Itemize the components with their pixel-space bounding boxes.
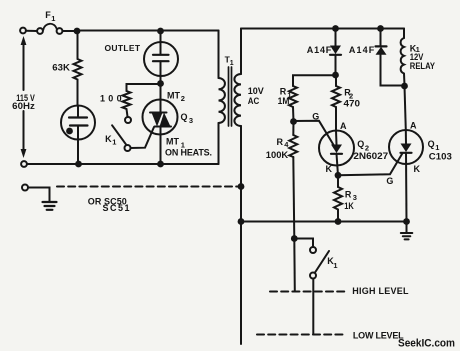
neon lamp bbox=[61, 106, 95, 140]
SCR Q1 bbox=[389, 86, 423, 222]
node junction triac bottom bbox=[157, 161, 164, 168]
svg-text:100K: 100K bbox=[266, 150, 289, 160]
svg-text:1: 1 bbox=[51, 14, 55, 23]
node junction bbox=[75, 161, 82, 168]
label K1 right bbox=[327, 256, 337, 270]
svg-text:G: G bbox=[386, 176, 393, 186]
svg-text:MT: MT bbox=[167, 90, 181, 100]
label MT1 bbox=[166, 137, 185, 150]
svg-text:K: K bbox=[326, 164, 333, 174]
svg-text:LOW LEVEL: LOW LEVEL bbox=[353, 330, 404, 340]
wire bottom rail right circuit bbox=[241, 221, 407, 223]
wire bbox=[26, 30, 37, 32]
svg-text:R: R bbox=[280, 87, 287, 97]
label OR SC50 SC51 bbox=[88, 196, 130, 213]
ground right bbox=[401, 222, 413, 240]
switch K1 left bbox=[112, 125, 130, 151]
resistor R1 bbox=[289, 86, 297, 122]
node junction left rail bottom wire bbox=[238, 218, 245, 225]
svg-text:2N6027: 2N6027 bbox=[353, 151, 388, 161]
svg-text:1: 1 bbox=[112, 138, 116, 147]
svg-text:RELAY: RELAY bbox=[410, 61, 435, 71]
svg-text:A: A bbox=[410, 121, 417, 131]
svg-text:A14F: A14F bbox=[307, 45, 332, 55]
terminal 100 bottom bbox=[125, 117, 131, 123]
wire right rail upper bbox=[218, 31, 220, 79]
label K1 12V RELAY bbox=[410, 43, 435, 71]
svg-text:G: G bbox=[312, 111, 319, 121]
label Q2 2N6027 bbox=[353, 139, 388, 161]
svg-text:3: 3 bbox=[189, 116, 193, 125]
wire R4 branch bbox=[292, 122, 294, 136]
label T1 bbox=[225, 55, 234, 68]
node junction ground right bbox=[403, 218, 410, 225]
svg-text:10V: 10V bbox=[248, 86, 264, 96]
wire bottom rail bbox=[27, 163, 219, 165]
svg-text:Q: Q bbox=[357, 139, 364, 149]
wire to 100 resistor bbox=[127, 84, 158, 91]
resistor R4 bbox=[289, 135, 297, 239]
svg-text:60Hz: 60Hz bbox=[12, 101, 35, 111]
svg-text:K: K bbox=[414, 164, 421, 174]
node junction top bbox=[74, 28, 81, 35]
resistor R3 bbox=[334, 175, 342, 221]
PUT Q2 bbox=[319, 131, 354, 176]
wire bbox=[63, 30, 78, 32]
dashed line high level bbox=[270, 290, 347, 292]
terminal top-left bbox=[20, 28, 26, 34]
svg-text:1K: 1K bbox=[344, 201, 354, 211]
resistor 63K bbox=[74, 34, 82, 106]
label F1 bbox=[45, 10, 55, 23]
svg-text:A: A bbox=[340, 121, 347, 131]
wire gate of triac bbox=[131, 127, 154, 148]
wire high level probe bbox=[293, 239, 296, 292]
wire to switch K1 bbox=[294, 239, 313, 247]
node junction below outlet bbox=[157, 80, 164, 87]
svg-text:63K: 63K bbox=[52, 63, 70, 73]
terminal bottom-left bbox=[21, 161, 27, 167]
svg-text:R: R bbox=[277, 137, 284, 147]
svg-text:A14F: A14F bbox=[349, 45, 375, 55]
svg-text:1: 1 bbox=[333, 261, 337, 270]
node junction diode1 top bbox=[332, 25, 339, 32]
dashed wire mid bbox=[57, 185, 239, 187]
label 115V 60Hz bbox=[12, 93, 35, 111]
node junction diode2 top bbox=[377, 25, 384, 32]
transformer T1 core bbox=[229, 67, 232, 126]
svg-text:470: 470 bbox=[344, 98, 361, 108]
relay K1 coil bbox=[401, 29, 405, 86]
label MT2 bbox=[167, 90, 185, 103]
node junction diode1 bottom bbox=[332, 72, 339, 79]
label R1 1M bbox=[278, 87, 292, 107]
svg-text:MT: MT bbox=[166, 137, 180, 147]
label R2 470 bbox=[344, 87, 361, 108]
outlet symbol bbox=[144, 31, 178, 84]
wire top rail bbox=[77, 30, 219, 32]
diode D2 A14F bbox=[376, 28, 405, 86]
svg-text:2: 2 bbox=[181, 94, 185, 103]
wire bbox=[77, 140, 79, 165]
resistor R2 bbox=[332, 75, 340, 131]
label Q1 C103 bbox=[428, 139, 452, 161]
svg-text:SeekIC.com: SeekIC.com bbox=[398, 338, 455, 350]
svg-text:100: 100 bbox=[100, 93, 122, 103]
wire gate Q2 bbox=[294, 121, 335, 147]
node junction relay bottom bbox=[401, 83, 408, 90]
svg-text:1M: 1M bbox=[278, 96, 290, 106]
diode D1 A14F bbox=[330, 28, 341, 75]
svg-text:R: R bbox=[345, 190, 352, 200]
fuse F1 bbox=[37, 24, 62, 34]
ground left bbox=[43, 202, 57, 210]
label 10V AC bbox=[248, 86, 264, 106]
label R3 1K bbox=[344, 190, 357, 211]
node junction R1 bottom bbox=[290, 118, 297, 125]
dashed line low level bbox=[257, 333, 343, 335]
svg-text:HIGH LEVEL: HIGH LEVEL bbox=[352, 286, 409, 296]
svg-text:AC: AC bbox=[248, 96, 260, 106]
transformer T1 secondary bbox=[234, 74, 241, 126]
wire gate Q1 bbox=[338, 154, 402, 176]
wire R1 top bbox=[293, 75, 336, 86]
terminal ground left bbox=[22, 185, 28, 191]
node junction Q2 cathode bbox=[335, 172, 342, 179]
node junction left rail dashed bbox=[238, 183, 245, 190]
node junction R3 bottom bbox=[335, 218, 342, 225]
node junction outlet top bbox=[157, 28, 164, 35]
triac Q3 bbox=[143, 84, 178, 165]
wire right circuit left rail bbox=[240, 29, 242, 345]
svg-text:1: 1 bbox=[230, 60, 234, 67]
svg-text:Q: Q bbox=[181, 112, 188, 122]
source 115V 60Hz arrows bbox=[21, 36, 27, 158]
svg-text:ON HEATS.: ON HEATS. bbox=[165, 147, 212, 157]
label K1 left bbox=[105, 134, 116, 147]
svg-text:C103: C103 bbox=[429, 151, 452, 161]
wire low level probe bbox=[312, 279, 314, 335]
label Q3 bbox=[181, 112, 194, 125]
svg-text:OUTLET: OUTLET bbox=[105, 43, 141, 53]
svg-text:Q: Q bbox=[428, 139, 435, 149]
wire to ground bbox=[28, 188, 49, 202]
resistor 100 bbox=[123, 91, 131, 117]
svg-text:K: K bbox=[105, 134, 112, 144]
svg-text:SC51: SC51 bbox=[103, 203, 130, 213]
label R4 100K bbox=[266, 137, 289, 160]
node junction probe split bbox=[291, 235, 298, 242]
transformer T1 primary bbox=[219, 78, 225, 123]
wire right circuit top rail bbox=[241, 28, 404, 30]
switch K1 right bbox=[310, 247, 329, 279]
wire right rail lower bbox=[218, 123, 220, 164]
